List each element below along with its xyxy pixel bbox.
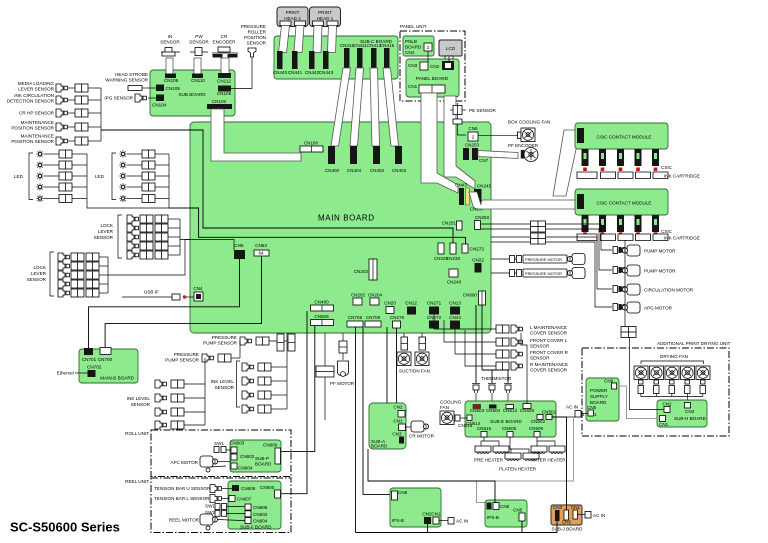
svg-text:SW1: SW1 bbox=[205, 504, 215, 509]
svg-text:PRINT: PRINT bbox=[286, 10, 300, 15]
wire: CN63 to CN700 bbox=[105, 256, 261, 348]
junction box pair bbox=[531, 221, 546, 232]
wire: CN5 to CN701 bbox=[89, 259, 240, 348]
svg-text:PE SENSOR: PE SENSOR bbox=[469, 108, 496, 113]
svg-text:CN608: CN608 bbox=[241, 486, 256, 491]
svg-text:SENSOR: SENSOR bbox=[94, 235, 114, 240]
svg-text:POWER: POWER bbox=[590, 388, 608, 393]
svg-text:PUMP SENSOR: PUMP SENSOR bbox=[203, 341, 238, 346]
sensor: PE SENSOR bbox=[450, 103, 466, 124]
svg-text:INK LEVEL: INK LEVEL bbox=[127, 396, 151, 401]
wire: LED group1 bus bbox=[87, 154, 190, 208]
board: SUB-C BOARD bbox=[274, 36, 398, 79]
svg-text:CN270: CN270 bbox=[390, 315, 405, 320]
svg-text:CN441: CN441 bbox=[288, 70, 303, 75]
svg-text:REEL MOTOR: REEL MOTOR bbox=[169, 518, 200, 523]
connector CN404 bbox=[350, 146, 357, 164]
fan: drying fan 1 bbox=[634, 366, 648, 380]
svg-text:MAIN BOARD: MAIN BOARD bbox=[318, 214, 375, 223]
fan: drying fan 4 bbox=[681, 366, 695, 380]
svg-text:FAN: FAN bbox=[440, 405, 449, 410]
svg-text:CN607: CN607 bbox=[237, 497, 252, 502]
connector CN402 bbox=[373, 146, 380, 164]
svg-text:CN180: CN180 bbox=[304, 141, 319, 146]
svg-text:CN13: CN13 bbox=[449, 301, 461, 306]
svg-text:SUB-P: SUB-P bbox=[255, 456, 269, 461]
svg-text:CN108: CN108 bbox=[164, 78, 179, 83]
wire: head ribbons bbox=[279, 26, 290, 53]
svg-text:CN404: CN404 bbox=[347, 168, 362, 173]
svg-text:SENSOR: SENSOR bbox=[27, 277, 47, 282]
svg-text:AC IN: AC IN bbox=[593, 513, 605, 518]
svg-text:CN400: CN400 bbox=[325, 168, 340, 173]
wire: terminal to CN2 bbox=[630, 338, 665, 410]
svg-text:CR: CR bbox=[221, 34, 228, 39]
board: SUB-E BOARD bbox=[465, 401, 556, 437]
svg-text:MEDIA LOADING: MEDIA LOADING bbox=[18, 81, 55, 86]
svg-text:CN604: CN604 bbox=[238, 466, 253, 471]
connector CN606 bbox=[245, 504, 251, 510]
svg-text:LED: LED bbox=[14, 174, 24, 179]
board: SUB-F BOARD bbox=[228, 481, 281, 529]
connector CN110 bbox=[192, 74, 203, 79]
connector CN403 bbox=[395, 146, 402, 164]
svg-text:SENSOR: SENSOR bbox=[247, 41, 267, 46]
svg-text:64: 64 bbox=[258, 251, 264, 256]
svg-text:PRESSURE MOTOR: PRESSURE MOTOR bbox=[525, 257, 562, 262]
svg-text:CSIC CONTACT MODULE: CSIC CONTACT MODULE bbox=[597, 135, 652, 140]
wire: ribbon CR encoder to CN112 bbox=[221, 58, 229, 74]
svg-text:MAINTENANCE: MAINTENANCE bbox=[21, 134, 54, 139]
svg-text:CN504: CN504 bbox=[486, 408, 501, 413]
board: MAIN BOARD bbox=[190, 122, 491, 333]
svg-text:SENSOR: SENSOR bbox=[160, 40, 180, 45]
svg-text:CN708: CN708 bbox=[366, 315, 381, 320]
motor: CR MOTOR with SUB-A BOARD bbox=[369, 403, 406, 449]
svg-text:AC IN: AC IN bbox=[456, 519, 468, 524]
svg-text:INK LEVEL: INK LEVEL bbox=[211, 379, 235, 384]
svg-text:CN512: CN512 bbox=[503, 408, 518, 413]
wire: drying fan bus bbox=[641, 396, 703, 398]
wire: CN501 to AC IN bbox=[552, 416, 575, 418]
svg-text:LEVER: LEVER bbox=[31, 271, 47, 276]
svg-text:CN706: CN706 bbox=[348, 315, 363, 320]
svg-text:SENSOR: SENSOR bbox=[189, 40, 209, 45]
wire: ink level right bus bbox=[286, 333, 288, 409]
svg-text:CN271: CN271 bbox=[427, 301, 442, 306]
svg-text:HEAD STROBE: HEAD STROBE bbox=[115, 72, 148, 77]
svg-text:BOARD: BOARD bbox=[371, 444, 388, 449]
svg-text:CN2: CN2 bbox=[430, 64, 440, 69]
svg-text:INK CARTRIDGE: INK CARTRIDGE bbox=[664, 174, 700, 179]
terminal box bbox=[621, 327, 636, 338]
svg-text:CN402: CN402 bbox=[370, 168, 385, 173]
svg-text:CN43: CN43 bbox=[455, 183, 467, 188]
svg-text:SENSOR: SENSOR bbox=[215, 385, 235, 390]
board: PNLB BOARD bbox=[403, 36, 434, 56]
svg-text:LED: LED bbox=[95, 174, 105, 179]
wire: ribbons SUB-C to main board bbox=[331, 68, 351, 146]
svg-text:CN1: CN1 bbox=[393, 419, 403, 424]
wire: drying fan bracket bbox=[641, 361, 704, 364]
board: LCD bbox=[439, 40, 462, 56]
svg-text:CN480: CN480 bbox=[314, 300, 329, 305]
wire: cover sensors to board bbox=[434, 314, 496, 366]
connector CN504 bbox=[489, 405, 497, 409]
svg-text:CN112: CN112 bbox=[217, 79, 231, 84]
wire: ribbon PW sensor to CN110 bbox=[194, 58, 201, 74]
svg-text:SW1: SW1 bbox=[214, 441, 224, 446]
wire: lock lever g2 bus bbox=[107, 257, 109, 293]
svg-text:CSIC CONTACT MODULE: CSIC CONTACT MODULE bbox=[597, 201, 652, 206]
svg-text:SUB BOARD: SUB BOARD bbox=[178, 92, 206, 97]
svg-text:CN6: CN6 bbox=[500, 504, 510, 509]
svg-text:CN415: CN415 bbox=[380, 43, 395, 48]
svg-text:CN502: CN502 bbox=[531, 419, 546, 424]
svg-text:CN44: CN44 bbox=[449, 315, 461, 320]
svg-text:PRINT: PRINT bbox=[318, 10, 332, 15]
svg-text:CN109: CN109 bbox=[166, 86, 181, 91]
heater: AFTER HEATER bbox=[531, 446, 547, 454]
wire: panel ribbon down to main board bbox=[421, 93, 458, 193]
svg-text:CN12: CN12 bbox=[405, 301, 417, 306]
svg-text:CN5: CN5 bbox=[513, 508, 523, 513]
connector CN500 bbox=[523, 404, 531, 409]
svg-text:PUMP SENSOR: PUMP SENSOR bbox=[165, 358, 200, 363]
fan: drying fan 3 bbox=[665, 366, 679, 380]
svg-text:HEAD 1: HEAD 1 bbox=[317, 16, 334, 21]
svg-text:CN4: CN4 bbox=[193, 286, 203, 291]
svg-text:PRESSURE: PRESSURE bbox=[174, 352, 199, 357]
svg-text:CN204: CN204 bbox=[368, 293, 383, 298]
svg-text:CN501: CN501 bbox=[542, 410, 557, 415]
svg-text:CN63: CN63 bbox=[255, 243, 267, 248]
wire: ink level left bus bbox=[204, 384, 206, 425]
heater: PLATEN HEATER bbox=[505, 453, 521, 461]
connector CN514 bbox=[467, 415, 472, 421]
wire: SUB-J CN2 up bbox=[552, 417, 567, 510]
svg-text:CN440: CN440 bbox=[273, 70, 288, 75]
connector CN602 (reel) bbox=[245, 511, 251, 517]
svg-text:CN2: CN2 bbox=[662, 402, 672, 407]
board: PRINT HEAD 1 bbox=[310, 7, 341, 27]
svg-text:CN500: CN500 bbox=[520, 408, 535, 413]
motor: APG MOTOR bbox=[613, 304, 627, 311]
svg-text:PLATEN HEATER: PLATEN HEATER bbox=[499, 467, 537, 472]
svg-text:ROLLER: ROLLER bbox=[248, 30, 267, 35]
svg-text:2: 2 bbox=[472, 135, 475, 140]
node: AC IN (SUB-J) bbox=[578, 514, 586, 516]
svg-text:COOLING: COOLING bbox=[440, 400, 462, 405]
wire: ribbon IN sensor to CN108 bbox=[166, 58, 173, 74]
connector CN441 bbox=[292, 51, 298, 69]
connector CN443 bbox=[323, 51, 329, 69]
connector CN512 bbox=[506, 405, 514, 409]
wire: IPS-B CN2 to bus bbox=[427, 524, 429, 533]
svg-text:INK CARTRIDGE: INK CARTRIDGE bbox=[664, 236, 700, 241]
wire: LED group2 bus bbox=[169, 154, 190, 208]
svg-text:CN1: CN1 bbox=[431, 512, 441, 517]
svg-text:AFC MOTOR: AFC MOTOR bbox=[171, 460, 199, 465]
connector CN442 bbox=[309, 51, 315, 69]
svg-text:CN508: CN508 bbox=[314, 314, 329, 319]
svg-text:SC-S50600 Series: SC-S50600 Series bbox=[10, 520, 120, 535]
svg-text:CN3: CN3 bbox=[408, 63, 418, 68]
svg-text:AC IN: AC IN bbox=[566, 405, 578, 410]
board: PANEL BOARD bbox=[406, 59, 459, 97]
svg-text:CN203: CN203 bbox=[354, 269, 369, 274]
svg-text:CN506: CN506 bbox=[529, 426, 544, 431]
wire: LED bus routed inside board bbox=[190, 208, 466, 244]
wire: IPS-B mid top to SUB-E bbox=[368, 449, 495, 503]
svg-text:CN3: CN3 bbox=[392, 432, 402, 437]
svg-text:CN702: CN702 bbox=[87, 365, 102, 370]
svg-text:IPS-B: IPS-B bbox=[487, 515, 499, 520]
wire: long verticals from main board bottom bbox=[282, 311, 308, 494]
svg-text:R MAINTENANCE: R MAINTENANCE bbox=[530, 362, 568, 367]
heater: PRE HEATER bbox=[475, 446, 491, 454]
motor: PUMP MOTOR 2 bbox=[613, 267, 627, 274]
svg-text:PF ENCODER: PF ENCODER bbox=[508, 143, 539, 148]
svg-text:CN600: CN600 bbox=[260, 485, 275, 490]
svg-text:CN1: CN1 bbox=[659, 422, 669, 427]
wire: ribbon to CSIC module 1 bbox=[553, 130, 578, 196]
svg-text:CN505: CN505 bbox=[502, 426, 517, 431]
svg-text:CN800: CN800 bbox=[463, 293, 478, 298]
gear box bbox=[316, 366, 334, 377]
svg-text:DRYING FAN: DRYING FAN bbox=[660, 354, 688, 359]
connector CN273 bbox=[462, 244, 468, 253]
svg-text:CN273: CN273 bbox=[470, 247, 485, 252]
svg-text:USB IF: USB IF bbox=[144, 290, 159, 295]
svg-text:L MAINTENANCE: L MAINTENANCE bbox=[530, 325, 567, 330]
svg-text:COVER SENSOR: COVER SENSOR bbox=[530, 331, 568, 336]
svg-text:ENCODER: ENCODER bbox=[213, 40, 237, 45]
svg-text:SUB-H BOARD: SUB-H BOARD bbox=[674, 416, 707, 421]
board: CSIC CONTACT MODULE 1 bbox=[575, 123, 668, 149]
wire: PF motor up bbox=[342, 333, 344, 341]
svg-text:CN604: CN604 bbox=[253, 519, 268, 524]
svg-text:CN516: CN516 bbox=[477, 426, 492, 431]
svg-text:CN250: CN250 bbox=[475, 215, 490, 220]
svg-text:CN602: CN602 bbox=[240, 454, 255, 459]
svg-text:CN403: CN403 bbox=[392, 168, 407, 173]
svg-text:CN411: CN411 bbox=[353, 43, 367, 48]
wire: lock lever g1 bus bbox=[179, 219, 181, 255]
svg-text:HEAD 2: HEAD 2 bbox=[284, 16, 301, 21]
svg-text:CN1: CN1 bbox=[408, 84, 418, 89]
svg-text:IPG SENSOR: IPG SENSOR bbox=[104, 96, 133, 101]
sensor: FRONT COVER L SENSOR bbox=[496, 338, 509, 346]
svg-text:CN606: CN606 bbox=[253, 505, 268, 510]
connector CN108 bbox=[165, 74, 176, 79]
board: IPS-B left bbox=[390, 488, 441, 527]
svg-text:CN104: CN104 bbox=[152, 103, 167, 108]
svg-text:INK CIRCULATION: INK CIRCULATION bbox=[14, 93, 54, 98]
svg-text:CN110: CN110 bbox=[191, 78, 205, 83]
connectors: CSIC module 1 pins bbox=[582, 149, 660, 166]
fan: drying fan 2 bbox=[650, 366, 664, 380]
board: SUB-P BOARD bbox=[230, 440, 281, 472]
svg-text:CR MOTOR: CR MOTOR bbox=[409, 434, 435, 439]
svg-text:CN2: CN2 bbox=[393, 405, 403, 410]
sensor: R MAINTENANCE COVER SENSOR bbox=[496, 362, 509, 370]
svg-text:CN7: CN7 bbox=[479, 158, 489, 163]
svg-text:PRESSURE: PRESSURE bbox=[241, 24, 266, 29]
fan: drying fan 5 bbox=[696, 366, 710, 380]
wire: main board to junction boxes bbox=[481, 224, 531, 242]
svg-text:CIRCULATION MOTOR: CIRCULATION MOTOR bbox=[644, 288, 694, 293]
svg-text:SUCTION FAN: SUCTION FAN bbox=[399, 369, 430, 374]
wire: sensor bus row lines bbox=[68, 88, 101, 141]
connector CN112 bbox=[218, 73, 231, 78]
connector CN220 CN230 bbox=[438, 243, 444, 254]
wire: ribbon to CSIC module 2 bbox=[469, 192, 577, 209]
svg-text:CN100: CN100 bbox=[212, 99, 227, 104]
wire: AC IN to power supply bbox=[581, 413, 588, 415]
svg-text:BOARD: BOARD bbox=[405, 45, 422, 50]
connector CN105 bbox=[218, 86, 231, 92]
wire: PE sensor down bbox=[458, 124, 467, 135]
svg-text:SUB-J BOARD: SUB-J BOARD bbox=[552, 527, 584, 532]
wire: terminal up bbox=[624, 240, 626, 327]
svg-text:MAIN-B BOARD: MAIN-B BOARD bbox=[100, 376, 134, 381]
wire: sensor bus to main board (routed inside board) bbox=[101, 130, 453, 243]
svg-text:CN245: CN245 bbox=[477, 184, 492, 189]
svg-text:CN503: CN503 bbox=[470, 408, 485, 413]
svg-text:LEVER: LEVER bbox=[98, 229, 114, 234]
svg-text:TENSION BAR L SENSOR: TENSION BAR L SENSOR bbox=[154, 496, 210, 501]
svg-text:BOARD: BOARD bbox=[255, 462, 272, 467]
board: IPS-B middle bbox=[485, 500, 527, 527]
sensor: FRONT COVER R SENSOR bbox=[496, 350, 509, 358]
svg-text:FRONT COVER L: FRONT COVER L bbox=[530, 338, 568, 343]
svg-text:PANEL UNIT: PANEL UNIT bbox=[400, 24, 427, 29]
fan: SUCTION FAN bbox=[401, 337, 408, 350]
motor: PRESSURE MOTOR 1 bbox=[491, 258, 516, 260]
svg-text:CN600: CN600 bbox=[263, 443, 278, 448]
svg-text:BOX COOLING FAN: BOX COOLING FAN bbox=[508, 120, 550, 125]
node: AC IN (left) bbox=[439, 520, 448, 522]
svg-text:CN443: CN443 bbox=[319, 70, 334, 75]
board: MAIN-B BOARD bbox=[79, 349, 138, 383]
motor: PUMP MOTOR 1 bbox=[613, 247, 627, 254]
svg-text:IN: IN bbox=[168, 34, 173, 39]
svg-text:CN22: CN22 bbox=[472, 258, 484, 263]
svg-text:SENSOR: SENSOR bbox=[530, 356, 550, 361]
svg-text:CN442: CN442 bbox=[305, 70, 320, 75]
board: CSIC CONTACT MODULE 2 bbox=[575, 189, 668, 215]
connector CN109 bbox=[156, 85, 164, 92]
board: SUB-H BOARD bbox=[657, 400, 707, 427]
svg-text:PRESSURE: PRESSURE bbox=[212, 335, 237, 340]
wire: CN500 up bbox=[521, 333, 527, 404]
svg-text:TENSION BAR U SENSOR: TENSION BAR U SENSOR bbox=[154, 486, 211, 491]
wire: power supply CN6 to SUB-H CN1 (gray) bbox=[617, 386, 660, 419]
svg-text:POSITION: POSITION bbox=[244, 35, 266, 40]
connector CN240 bbox=[449, 269, 458, 277]
motor: CIRCULATION MOTOR bbox=[613, 286, 627, 293]
svg-text:FRONT COVER R: FRONT COVER R bbox=[530, 350, 569, 355]
svg-text:IPS-B: IPS-B bbox=[392, 518, 404, 523]
wire: ribbon CN100 to CN180 bbox=[211, 109, 301, 161]
wire: SUB-J CN3 down to bus bbox=[356, 521, 558, 533]
wire: inline joint boxes below main board bbox=[277, 334, 284, 351]
sensor: L MAINTENANCE COVER SENSOR bbox=[496, 325, 509, 333]
svg-text:Ethernet: Ethernet bbox=[57, 371, 75, 376]
svg-text:POSITION SENSOR: POSITION SENSOR bbox=[11, 126, 54, 131]
connector CN604 (reel) bbox=[245, 518, 251, 524]
wire: junction to motors bbox=[546, 224, 613, 307]
svg-text:SENSOR: SENSOR bbox=[530, 344, 550, 349]
svg-text:CN701: CN701 bbox=[82, 357, 97, 362]
svg-text:CN4: CN4 bbox=[405, 50, 415, 55]
ink cartridges row 1 bbox=[577, 172, 668, 179]
connector CN608 bbox=[232, 485, 239, 491]
svg-text:CN253: CN253 bbox=[465, 143, 480, 148]
svg-text:ROLL UNIT: ROLL UNIT bbox=[125, 431, 149, 436]
svg-text:2: 2 bbox=[427, 45, 430, 50]
svg-text:CN5: CN5 bbox=[587, 405, 597, 410]
svg-text:AFTER HEATER: AFTER HEATER bbox=[531, 458, 566, 463]
svg-text:PRESSURE MOTOR: PRESSURE MOTOR bbox=[525, 271, 562, 276]
svg-text:PRE HEATER: PRE HEATER bbox=[474, 458, 504, 463]
svg-text:CR HP SENSOR: CR HP SENSOR bbox=[19, 111, 55, 116]
wire: PNLB to PANEL lines bbox=[427, 51, 429, 62]
board: SUB BOARD (head) bbox=[150, 70, 235, 116]
svg-text:LCD: LCD bbox=[446, 46, 456, 51]
wire: thermistor links bbox=[475, 375, 477, 383]
connector CN607 bbox=[229, 496, 235, 502]
svg-text:CN3: CN3 bbox=[685, 409, 695, 414]
svg-text:CN240: CN240 bbox=[447, 280, 462, 285]
connector CN440 bbox=[277, 51, 283, 69]
board: POWER SUPPLY BOARD bbox=[586, 378, 619, 421]
svg-text:LOCK: LOCK bbox=[100, 223, 113, 228]
svg-text:PF MOTOR: PF MOTOR bbox=[330, 381, 355, 386]
svg-text:THERMISTOR: THERMISTOR bbox=[481, 376, 512, 381]
svg-text:ADDITIONAL PRINT DRYING UNIT: ADDITIONAL PRINT DRYING UNIT bbox=[657, 341, 731, 346]
svg-text:APG MOTOR: APG MOTOR bbox=[644, 306, 673, 311]
svg-text:REEL UNIT: REEL UNIT bbox=[125, 479, 149, 484]
svg-text:MAINTENANCE: MAINTENANCE bbox=[21, 120, 54, 125]
connector CN104 bbox=[156, 95, 164, 102]
wire: gray long to IPS-B bbox=[477, 417, 574, 503]
svg-text:PNLB: PNLB bbox=[405, 39, 417, 44]
connectors: CSIC module 2 pins bbox=[582, 215, 660, 232]
svg-text:DETECTION SENSOR: DETECTION SENSOR bbox=[7, 99, 55, 104]
svg-text:SENSOR: SENSOR bbox=[131, 402, 151, 407]
svg-text:CN230: CN230 bbox=[446, 256, 461, 261]
svg-text:SUB-E BOARD: SUB-E BOARD bbox=[490, 419, 522, 424]
svg-text:PW: PW bbox=[195, 34, 203, 39]
svg-text:CN8: CN8 bbox=[398, 490, 408, 495]
board: PRINT HEAD 2 bbox=[277, 7, 308, 27]
connector CN503 bbox=[473, 405, 481, 409]
svg-text:1: 1 bbox=[594, 412, 597, 417]
svg-text:CN3: CN3 bbox=[553, 505, 563, 510]
wire: ribbon CN253 to PF encoder bbox=[478, 151, 518, 159]
board: SUB-J BOARD bbox=[551, 505, 582, 525]
svg-text:CSIC: CSIC bbox=[661, 229, 673, 234]
motor: PRESSURE MOTOR 2 bbox=[491, 272, 516, 274]
svg-text:PUMP MOTOR: PUMP MOTOR bbox=[644, 249, 676, 254]
ink cartridges row 2 bbox=[577, 234, 668, 241]
svg-text:PUMP MOTOR: PUMP MOTOR bbox=[644, 269, 676, 274]
svg-text:CN251: CN251 bbox=[442, 221, 457, 226]
svg-text:LOCK: LOCK bbox=[33, 265, 46, 270]
svg-text:CN700: CN700 bbox=[98, 357, 113, 362]
